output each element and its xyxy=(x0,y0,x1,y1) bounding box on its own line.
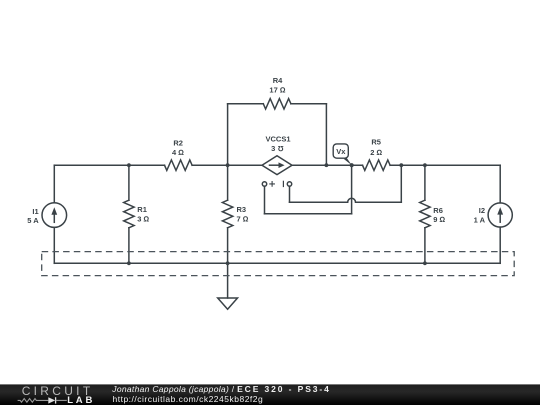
dashed selection box xyxy=(42,252,515,276)
VCCS1 control terminal + circle xyxy=(262,182,266,186)
wire R4 top left lead xyxy=(228,103,264,105)
I1 arrowhead xyxy=(51,207,57,215)
wire R5 to I2 top xyxy=(390,164,500,166)
ground triangle xyxy=(218,298,238,309)
node R6 top xyxy=(423,163,427,167)
current source I2 circle xyxy=(488,203,512,227)
logo resistor zigzag xyxy=(18,399,49,403)
svg-text:17 Ω: 17 Ω xyxy=(269,86,285,95)
node ground junction xyxy=(226,261,230,265)
wire I1 top vertical xyxy=(53,165,55,203)
VCCS1 diamond body xyxy=(262,156,292,175)
svg-text:3 Ω: 3 Ω xyxy=(137,215,149,224)
wire R1 top vertical xyxy=(128,165,130,200)
node R6 bottom xyxy=(423,261,427,265)
resistor R4 xyxy=(263,99,291,109)
wire R6 bottom vertical xyxy=(424,228,426,263)
svg-text:I2: I2 xyxy=(479,206,485,215)
svg-text:R5: R5 xyxy=(371,138,381,147)
wire R3 bottom vertical xyxy=(227,228,229,263)
wire control plus horizontal xyxy=(265,213,352,215)
resistor R1 xyxy=(124,200,134,228)
svg-text:R6: R6 xyxy=(433,206,443,215)
wire I2 top vertical xyxy=(499,165,501,203)
svg-text:5 A: 5 A xyxy=(27,216,39,225)
svg-text:Jonathan Cappola (jcappola) /: Jonathan Cappola (jcappola) / ECE 320 - … xyxy=(111,384,330,394)
svg-text:VCCS1: VCCS1 xyxy=(265,135,290,144)
wire R4 left vertical xyxy=(227,104,229,165)
svg-text:R4: R4 xyxy=(273,76,283,85)
wire control minus horizontal with hop xyxy=(290,198,402,202)
I2 arrowhead xyxy=(497,207,503,215)
wire R3 top vertical xyxy=(227,165,229,200)
I1 arrow stem xyxy=(53,211,55,222)
node R4 right xyxy=(325,163,329,167)
svg-text:I1: I1 xyxy=(32,207,38,216)
wire R4 right vertical xyxy=(325,104,327,165)
svg-text:Vx: Vx xyxy=(336,147,346,156)
svg-text:4 Ω: 4 Ω xyxy=(172,148,184,157)
wire I2 bottom vertical xyxy=(499,227,501,263)
resistor R5 xyxy=(363,160,391,170)
node R1 top xyxy=(127,163,131,167)
current source I1 circle xyxy=(42,203,67,228)
svg-text:R3: R3 xyxy=(237,205,247,214)
resistor R2 xyxy=(165,160,193,170)
wire I1 bottom vertical xyxy=(53,227,55,263)
VCCS1 control terminal - circle xyxy=(287,182,291,186)
node R1 bottom xyxy=(127,261,131,265)
wire R6 top vertical xyxy=(424,165,426,200)
wire R2 to VCCS1 left xyxy=(192,164,262,166)
resistor R3 xyxy=(222,200,232,228)
label Vx callout pointer xyxy=(344,157,352,165)
svg-text:3: 3 xyxy=(271,144,275,153)
VCCS1 plus sign xyxy=(270,182,275,187)
svg-text:1 A: 1 A xyxy=(474,216,486,225)
svg-text:R2: R2 xyxy=(173,138,183,147)
node R5 right xyxy=(399,163,403,167)
svg-text:R1: R1 xyxy=(137,205,147,214)
svg-text:7 Ω: 7 Ω xyxy=(237,215,249,224)
label Vx box xyxy=(333,144,348,158)
wire Vx node down vertical xyxy=(351,165,353,214)
wire minus up to node xyxy=(400,165,402,202)
logo diode xyxy=(48,397,55,403)
I2 arrow stem xyxy=(499,211,501,222)
node R3 R4 junction xyxy=(226,163,230,167)
wire R1 bottom vertical xyxy=(128,228,130,263)
VCCS1 minus sign xyxy=(282,181,284,186)
svg-text:http://circuitlab.com/ck2245kb: http://circuitlab.com/ck2245kb82f2g xyxy=(113,394,264,404)
wire main top rail left I1 to R2 xyxy=(54,164,164,166)
svg-text:9 Ω: 9 Ω xyxy=(433,215,445,224)
node Vx xyxy=(350,163,354,167)
svg-text:LAB: LAB xyxy=(67,395,95,405)
resistor R6 xyxy=(420,200,430,228)
logo diode bar xyxy=(55,397,57,403)
VCCS1 arrowhead xyxy=(279,162,285,168)
svg-text:2 Ω: 2 Ω xyxy=(370,148,382,157)
wire control plus down xyxy=(264,186,266,214)
ground stem xyxy=(227,263,229,298)
VCCS1 arrow xyxy=(270,164,280,166)
svg-text:Ω: Ω xyxy=(277,144,283,153)
footer bar xyxy=(0,384,540,405)
wire bottom rail xyxy=(54,262,500,264)
wire VCCS1 right to I2 xyxy=(292,164,363,166)
wire control minus down xyxy=(289,186,291,202)
wire R4 top right lead xyxy=(291,103,327,105)
logo diode wire xyxy=(56,399,67,401)
